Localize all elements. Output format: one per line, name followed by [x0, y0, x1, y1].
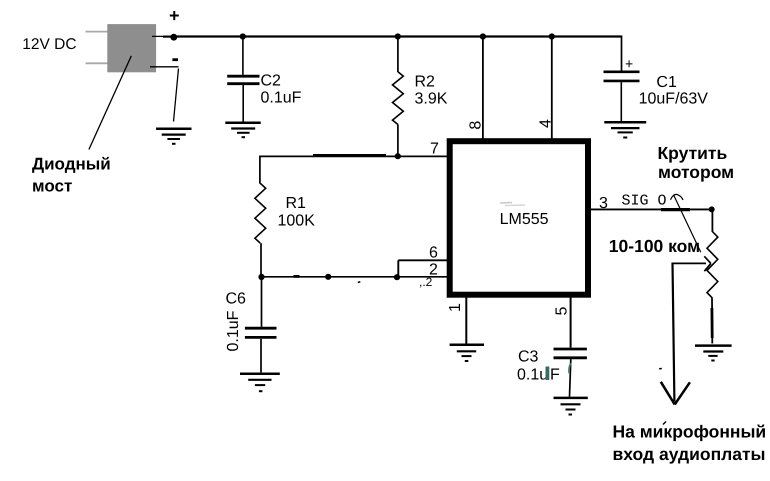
- node: R1/C6/pin2 junction: [258, 274, 264, 280]
- svg-text:10-100 ком: 10-100 ком: [609, 236, 700, 256]
- node: R2/pin7 junction: [395, 153, 401, 159]
- pin number 2: [429, 262, 438, 279]
- wiper wire and arrowhead: [673, 256, 711, 271]
- capacitor C1 (polarized): [604, 56, 640, 122]
- smudge above LM555: [500, 203, 525, 206]
- wire: pin 8: [482, 37, 484, 140]
- wire: pin 6: [398, 260, 447, 277]
- node: stray junction dot: [325, 274, 331, 280]
- capacitor C6: [245, 277, 277, 372]
- svg-text:SIG O: SIG O: [622, 192, 667, 209]
- diode bridge (gray block): [86, 24, 157, 72]
- svg-text:3.9K: 3.9K: [415, 91, 448, 108]
- svg-text:R1: R1: [286, 195, 307, 212]
- svg-text:R2: R2: [415, 74, 436, 91]
- ground (potentiometer): [695, 346, 732, 361]
- wire: pin 3 output: [591, 208, 712, 210]
- pin number 7: [430, 141, 439, 158]
- svg-text:6: 6: [429, 245, 438, 262]
- wire: pin 7: [259, 155, 447, 156]
- ground (C3): [554, 398, 588, 415]
- label C3 0.1uF: [517, 349, 571, 384]
- ground (C2): [225, 123, 260, 137]
- node: R2 junction: [395, 33, 401, 39]
- op-amp/timer IC U1 LM555: [450, 141, 588, 295]
- label R2 3.9K: [415, 74, 448, 108]
- node: pin3/pot junction: [709, 206, 715, 212]
- pin number 6: [429, 245, 438, 262]
- svg-text:10uF/63V: 10uF/63V: [639, 91, 709, 108]
- capacitor C2: [227, 37, 259, 122]
- svg-text:3: 3: [599, 195, 608, 212]
- svg-text:12V DC: 12V DC: [22, 36, 76, 53]
- wire: output arrow to mic input: [659, 263, 690, 405]
- wire: pin 5: [570, 295, 572, 348]
- svg-text:100K: 100K: [278, 213, 316, 230]
- svg-text:C3: C3: [518, 349, 539, 366]
- annotation line to potentiometer: [671, 194, 701, 252]
- svg-text:C1: C1: [656, 74, 677, 91]
- label C1 10uF/63V: [639, 74, 709, 108]
- svg-text:7: 7: [430, 141, 439, 158]
- svg-text:F: F: [550, 367, 560, 384]
- label На микрофонный вход аудиоплаты: [613, 422, 767, 465]
- label 10-100 ком: [609, 236, 700, 256]
- svg-text:На микрофонный: На микрофонный: [613, 422, 767, 442]
- label R1 100K: [278, 195, 316, 230]
- label C6 0.1uF (rotated): [225, 291, 246, 352]
- svg-text:C6: C6: [226, 291, 247, 308]
- svg-text:8: 8: [467, 121, 484, 130]
- svg-text:,.2: ,.2: [419, 275, 433, 289]
- label C2 0.1uF: [261, 73, 302, 107]
- label Крутить мотором: [658, 143, 735, 182]
- svg-text:0.1uF: 0.1uF: [261, 90, 302, 107]
- svg-text:0.1u: 0.1u: [517, 367, 548, 384]
- ground (C6): [240, 374, 280, 391]
- resistor R1: [255, 156, 266, 278]
- svg-text:Диодный: Диодный: [32, 155, 111, 174]
- svg-text:LM555: LM555: [500, 211, 549, 228]
- node: pin4 junction: [549, 33, 555, 39]
- node: C2 junction: [240, 33, 246, 39]
- ground (C1): [604, 122, 646, 137]
- svg-text:мотором: мотором: [658, 162, 734, 182]
- label Диодный мост: [32, 155, 111, 196]
- wire: bridge minus lead: [150, 67, 179, 122]
- capacitor C3: [554, 349, 587, 397]
- resistor R2: [393, 37, 404, 158]
- smudge below pin 2 wire: [419, 275, 433, 289]
- potentiometer 10-100 kOhm: [707, 209, 718, 343]
- pin number 5: [554, 306, 571, 315]
- svg-text:+: +: [625, 56, 633, 72]
- ground (bridge minus): [156, 129, 191, 144]
- svg-text:+: +: [169, 6, 180, 26]
- svg-text:Крутить: Крутить: [658, 143, 728, 163]
- pin number 4: [538, 119, 555, 128]
- svg-text:мост: мост: [32, 177, 72, 196]
- svg-text:5: 5: [554, 306, 571, 315]
- annotation line to diode bridge: [89, 56, 131, 150]
- pin number 3: [599, 195, 608, 212]
- node: bridge + junction: [170, 34, 177, 41]
- pin number 8: [467, 121, 484, 130]
- minus terminal label: [172, 58, 178, 61]
- ground (pin 1): [450, 345, 484, 361]
- node: pin8 junction: [480, 33, 486, 39]
- svg-text:1: 1: [447, 303, 464, 312]
- svg-text:4: 4: [538, 119, 555, 128]
- wire: pin 4: [551, 37, 553, 140]
- wire: pin 2: [260, 276, 448, 282]
- svg-text:C2: C2: [261, 73, 282, 90]
- wire: pin 1: [465, 295, 467, 344]
- pin number 1: [447, 303, 464, 312]
- wire: bridge + output to rail: [152, 35, 175, 37]
- svg-text:0.1uF: 0.1uF: [225, 310, 242, 351]
- plus terminal label: [169, 6, 180, 26]
- label 12V DC: [22, 36, 76, 53]
- node: pin6 link junction: [394, 274, 400, 280]
- wire: top power rail: [173, 36, 622, 72]
- svg-text:вход аудиоплаты: вход аудиоплаты: [613, 444, 766, 464]
- label SIG O (erased SIG OUT): [622, 192, 667, 209]
